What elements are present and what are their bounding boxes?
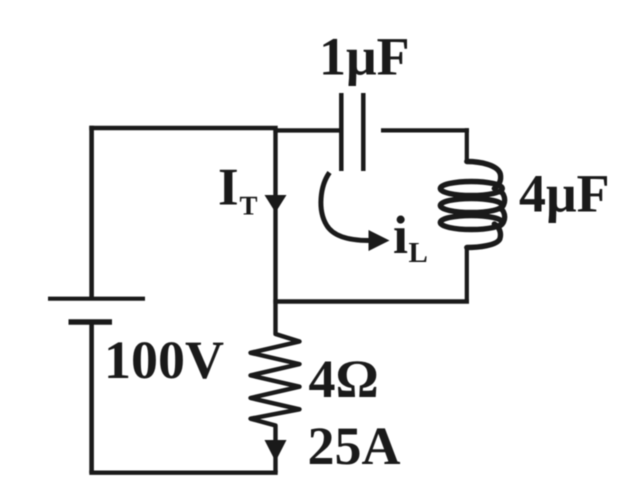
label 25A <box>310 428 400 464</box>
current arrow iL curved arc <box>321 173 369 241</box>
wire right vertical upper <box>465 128 469 162</box>
resistor R1 zigzag <box>251 301 300 473</box>
wire bottom of LC loop <box>273 299 469 303</box>
capacitor C1 right plate <box>361 93 366 171</box>
battery V1 top plate <box>48 297 145 301</box>
label iL subscript L <box>409 243 427 262</box>
label 100V <box>108 342 223 379</box>
wire left vertical lower <box>89 322 94 473</box>
wire capacitor-left horizontal <box>273 128 341 132</box>
battery V1 bottom plate <box>69 319 113 324</box>
label iL <box>394 216 407 254</box>
label 4ohm <box>309 361 376 397</box>
current arrow IT arrowhead <box>265 195 287 213</box>
label 4uF <box>520 176 607 223</box>
label IT <box>220 170 237 205</box>
label 1uF <box>323 39 407 86</box>
label IT subscript T <box>240 197 257 215</box>
wire top-right horizontal <box>381 128 469 132</box>
wire bottom horizontal <box>89 471 277 475</box>
current arrow iL arrowhead <box>369 230 390 251</box>
current arrow 25A arrowhead <box>265 440 287 462</box>
inductor L1 coil <box>440 162 504 248</box>
wire top-left horizontal <box>89 126 277 130</box>
capacitor C1 left plate <box>339 93 344 171</box>
wire middle vertical branch <box>273 128 277 301</box>
wire right vertical lower <box>465 247 469 304</box>
wire left vertical upper <box>89 126 94 299</box>
